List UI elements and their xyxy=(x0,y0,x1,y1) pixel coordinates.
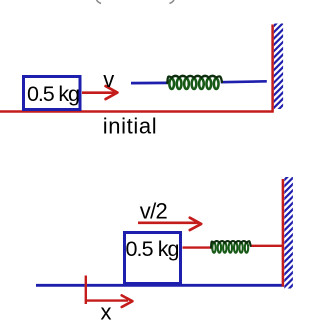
svg-text:0.5 kg: 0.5 kg xyxy=(126,237,180,261)
spring coil (green, top) xyxy=(169,79,174,89)
velocity arrow v/2 (red) xyxy=(138,222,198,225)
spring wire left (blue) xyxy=(131,82,168,85)
spring wire right (red, bottom) xyxy=(250,245,283,247)
wall hatching (bottom) xyxy=(282,169,295,301)
arrowhead v xyxy=(106,86,118,99)
spring coil (green, bottom) xyxy=(212,243,215,253)
svg-text:v: v xyxy=(103,67,114,92)
ground line (blue, bottom) xyxy=(36,284,284,287)
ground line (red) xyxy=(0,110,274,113)
cropped text remnant right parenthesis xyxy=(170,0,175,4)
wall hatching (top) xyxy=(272,15,285,123)
mass box 0.5 kg (top) xyxy=(24,77,81,110)
svg-text:0.5 kg: 0.5 kg xyxy=(27,82,80,106)
spring wire left (red, bottom) xyxy=(183,246,212,248)
mass box 0.5 kg (bottom) xyxy=(125,233,181,284)
arrowhead x xyxy=(122,295,133,307)
cropped text remnant left parenthesis xyxy=(97,0,102,4)
wall red post (bottom) xyxy=(282,179,285,287)
svg-text:v/2: v/2 xyxy=(140,198,168,223)
wall red post (top) xyxy=(271,25,274,113)
x reference tick (red) xyxy=(85,276,87,305)
spring wire right (blue) xyxy=(221,80,267,83)
velocity arrow v (top) xyxy=(82,91,116,94)
displacement arrow x (red) xyxy=(86,299,128,301)
arrowhead v/2 xyxy=(190,218,201,230)
svg-text:initial: initial xyxy=(103,114,157,139)
svg-text:x: x xyxy=(101,299,112,324)
